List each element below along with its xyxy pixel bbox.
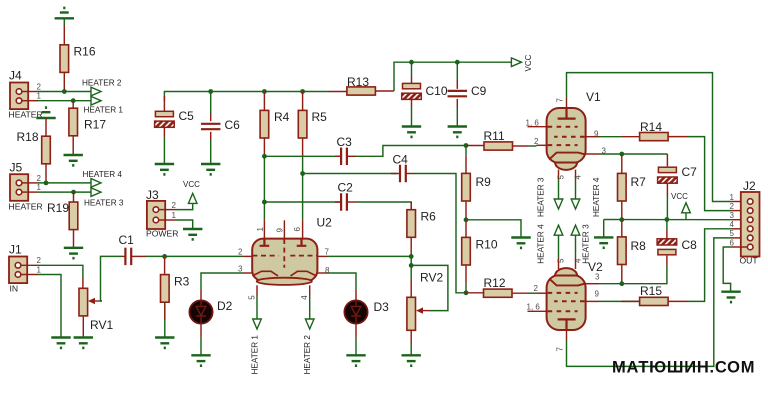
net flag HEATER 2 (U2) [305, 319, 314, 329]
wire R11 node to R9 [465, 146, 467, 156]
pin D2 bottom [200, 324, 202, 337]
svg-text:C4: C4 [393, 153, 409, 167]
pin J5-1 stub [22, 191, 38, 193]
svg-text:2: 2 [37, 174, 42, 183]
tube V2 [547, 268, 586, 330]
resistor R3 [161, 275, 170, 303]
net flag HEATER 1 [91, 96, 101, 105]
resistor R10 [462, 237, 471, 265]
pin RV1 bottom [82, 316, 84, 338]
wire rail to C10 [411, 62, 413, 75]
wire C10 to ground [411, 108, 413, 127]
net flag HEATER 3 (V1) [554, 199, 563, 209]
wire V2-9 to R15 [599, 300, 640, 302]
wire R9 node to ground [466, 220, 521, 238]
svg-text:U2: U2 [317, 216, 333, 230]
ground RV1 [74, 338, 93, 348]
resistor R15 [640, 297, 669, 305]
resistor R8 [618, 237, 627, 265]
capacitor C10 [402, 83, 422, 99]
pin U2-3 stub [243, 272, 253, 274]
resistor R19 [69, 202, 78, 230]
svg-text:C3: C3 [337, 135, 353, 149]
svg-text:2: 2 [730, 202, 735, 211]
pin R7 bottom [621, 201, 623, 220]
svg-text:9: 9 [594, 130, 599, 139]
wiper arrow RV1 [92, 300, 102, 302]
wire D3 to ground [355, 337, 357, 355]
ground above R18 [36, 108, 55, 118]
wire U2-8 to D3 [327, 273, 356, 290]
pin C4 right [406, 173, 414, 175]
pin R16 bottom [63, 72, 65, 91]
pin V2-4 stub [575, 258, 577, 269]
wire rail to C9 [456, 62, 458, 80]
svg-text:C1: C1 [119, 233, 135, 247]
svg-text:C5: C5 [179, 109, 195, 123]
ground C5 [155, 164, 174, 174]
svg-text:5: 5 [247, 295, 256, 300]
wire net HEATER3 [38, 191, 91, 193]
wire to U2 pin1 [263, 202, 265, 220]
pin R7 top [621, 155, 623, 173]
svg-text:1: 1 [37, 265, 42, 274]
pin J2-3 stub [732, 219, 747, 221]
capacitor C4 [400, 165, 406, 183]
wire R4 node down [263, 156, 265, 202]
junction RV2 wiper tap [409, 263, 414, 268]
pin R8 bottom [621, 265, 623, 284]
net flag HEATER 1 (U2) [253, 319, 262, 329]
connector J1 [9, 257, 27, 284]
pin RV2 top [410, 280, 412, 297]
net flag HEATER 3 (V2) [571, 225, 580, 235]
wire J3-2 to VCC [175, 203, 193, 209]
pin R13 left [329, 91, 347, 93]
svg-text:3: 3 [595, 273, 600, 282]
svg-text:C6: C6 [225, 118, 241, 132]
wiper arrow RV2 [420, 310, 429, 312]
svg-text:R19: R19 [47, 201, 69, 215]
wire net HEATER2 [38, 91, 91, 93]
wire R5 to C4 node [302, 156, 304, 173]
net flag HEATER 2 [91, 87, 101, 96]
svg-text:R4: R4 [274, 110, 290, 124]
pin R12 left [466, 292, 484, 294]
svg-text:R11: R11 [484, 129, 505, 143]
ground J3 [183, 229, 202, 239]
pin R9 top [465, 155, 467, 173]
connector J5 [10, 174, 28, 201]
pin RV2 bottom [410, 330, 412, 343]
wire J1-2 to RV1 [38, 265, 83, 277]
wire C5 to ground [163, 137, 165, 164]
pin R14 right [668, 136, 687, 138]
pin R4 bottom [263, 138, 265, 156]
resistor R18 [42, 136, 51, 164]
wire V1-3 to C7 [599, 153, 667, 155]
LED D2 [189, 300, 212, 323]
wire V1-5 heater [558, 180, 560, 199]
pin C10 top [411, 75, 413, 83]
ground D2 [191, 355, 210, 365]
junction C9/VCC rail [455, 60, 460, 65]
ground below R19 [64, 248, 83, 258]
svg-text:2: 2 [238, 248, 243, 257]
pin J2-1 stub [732, 201, 747, 203]
wire C8 to V2-3 net [622, 266, 667, 284]
wire R11 to V1 [529, 145, 537, 147]
pin R8 top [621, 220, 623, 237]
wire U2-7 to R6 node [327, 255, 411, 257]
pin J1-1 stub [21, 274, 38, 276]
wire R14 to J2-2 [687, 137, 732, 211]
svg-text:R12: R12 [484, 276, 506, 290]
ground C6 [201, 164, 220, 174]
junction R18/J5-2 [44, 181, 49, 186]
pin R5 top [302, 92, 304, 111]
capacitor C6 [201, 124, 221, 129]
wire anode supply bus [164, 92, 328, 102]
net flag HEATER 4 (V1) [571, 199, 580, 209]
junction R5/bus [300, 89, 305, 94]
resistor R14 [640, 133, 669, 141]
pin J1-2 stub [21, 264, 38, 266]
svg-text:R7: R7 [631, 175, 647, 189]
junction R19/J5-1 [71, 190, 76, 195]
junction C10/VCC rail [409, 60, 414, 65]
pin R5 bottom [302, 138, 304, 156]
pin J5-2 stub [22, 182, 38, 184]
junction R4/bus [262, 89, 267, 94]
junction C3/R11/R9 [464, 143, 469, 148]
pin V2-9 stub [586, 300, 599, 302]
svg-text:3: 3 [238, 265, 243, 274]
wire bus to C6 [210, 92, 212, 114]
wire V2-7 to J2-5 [567, 238, 733, 367]
pin U2-5 stub [256, 285, 258, 295]
pin C5 top [163, 96, 165, 111]
pin U2-1 stub [263, 220, 265, 238]
wire V1-4 heater [575, 180, 577, 199]
pin R12 right [512, 292, 529, 294]
wire wiper short [101, 300, 103, 302]
pin U2-6 stub [302, 220, 304, 238]
capacitor C8 [657, 239, 677, 255]
resistor R16 [60, 45, 69, 73]
pin U2-4 stub [309, 285, 311, 295]
wire V2-5 heater [558, 235, 560, 258]
tube V2 internals [548, 279, 586, 331]
wire RV2 to ground [410, 343, 412, 355]
pin J2-4 stub [732, 228, 747, 230]
svg-text:IN: IN [10, 284, 19, 294]
svg-text:C8: C8 [682, 238, 698, 252]
pin U2-7 stub [317, 255, 327, 257]
pin R10 top [465, 220, 467, 238]
svg-text:HEATER 1: HEATER 1 [251, 335, 260, 375]
ground C9 [448, 127, 467, 137]
connector J3 [147, 201, 165, 229]
pin V2-1,6 stub [528, 310, 547, 312]
svg-text:R9: R9 [476, 175, 492, 189]
svg-text:RV2: RV2 [420, 271, 443, 285]
wire R15 to J2-4 [687, 229, 732, 302]
pin D3 top [355, 290, 357, 301]
wire RV2 wiper loop [411, 265, 448, 310]
pin V1-7 stub [566, 98, 568, 108]
svg-text:VCC: VCC [524, 54, 533, 71]
svg-text:HEATER 4: HEATER 4 [592, 177, 601, 217]
resistor R17 [69, 108, 78, 136]
svg-text:J2: J2 [743, 179, 756, 193]
svg-text:5: 5 [556, 258, 565, 263]
capacitor C1 [125, 248, 131, 266]
pin R18 top [45, 118, 47, 136]
pin V2-5 stub [558, 258, 560, 269]
wire V1-7 to J2-1 [567, 73, 733, 202]
svg-text:R6: R6 [421, 210, 437, 224]
junction R7/V1-3 [619, 152, 624, 157]
pin R16 top [63, 26, 65, 45]
svg-text:1, 6: 1, 6 [527, 303, 541, 312]
connector J2 [741, 192, 760, 257]
pin R15 left [621, 300, 640, 302]
wire R6 node down [410, 256, 412, 265]
junction C6/bus [208, 89, 213, 94]
pin R6 bottom [410, 237, 412, 256]
junction C7/C8 [665, 217, 670, 222]
svg-text:6: 6 [730, 238, 735, 247]
wire V1-3 node to R7 [621, 154, 623, 155]
svg-text:HEATER 2: HEATER 2 [82, 78, 122, 87]
pin R19 top [73, 192, 75, 202]
ground C10 [402, 127, 421, 137]
pin C3 left [335, 155, 341, 157]
resistor R12 [484, 289, 513, 297]
wire C3 to R11 node [356, 146, 466, 157]
junction C2 tap [262, 200, 267, 205]
pin R11 right [513, 145, 529, 147]
junction R10/R12/C4 [464, 290, 469, 295]
connector J4 [10, 83, 28, 110]
svg-text:2: 2 [534, 137, 539, 146]
net flag VCC (J2) [685, 213, 687, 220]
pin R17 top [72, 101, 74, 109]
svg-text:D3: D3 [374, 300, 390, 314]
svg-text:HEATER 2: HEATER 2 [303, 335, 312, 375]
svg-text:HEATER 3: HEATER 3 [537, 177, 546, 217]
pin C3 right [347, 155, 356, 157]
wire D2 to ground [200, 337, 202, 355]
wire V2-4 heater [575, 235, 577, 258]
svg-text:7: 7 [556, 98, 565, 103]
junction R4/C3 node [262, 154, 267, 159]
ground J2-6 [721, 292, 740, 302]
svg-text:4: 4 [730, 220, 735, 229]
wire C4 to R12 node [414, 174, 466, 293]
svg-text:J4: J4 [9, 69, 22, 83]
pin R11 left [466, 145, 484, 147]
wire C9 to ground [456, 107, 458, 127]
pin C2 left [335, 201, 341, 203]
svg-text:C2: C2 [338, 181, 354, 195]
svg-text:2: 2 [37, 256, 42, 265]
svg-text:J1: J1 [9, 243, 22, 257]
svg-text:2: 2 [534, 284, 539, 293]
capacitor C5 [155, 111, 175, 127]
svg-text:R5: R5 [312, 110, 328, 124]
net flag VCC (J3) [188, 193, 197, 203]
wire net to C8 [666, 220, 668, 231]
wire net HEATER1 [38, 100, 91, 102]
svg-text:R10: R10 [476, 238, 498, 252]
resistor R7 [618, 173, 627, 201]
pin V2-2 stub [537, 292, 547, 294]
pin C9 top [456, 80, 458, 89]
pin J2-2 stub [732, 210, 747, 212]
svg-text:R15: R15 [640, 284, 662, 298]
capacitor C2 [341, 193, 347, 211]
svg-text:3: 3 [730, 211, 735, 220]
pin C8 bottom [666, 256, 668, 266]
pin R17 bottom [72, 136, 74, 155]
pin R10 bottom [465, 265, 467, 283]
svg-text:R14: R14 [640, 120, 662, 134]
wire U2-4 heater [309, 295, 311, 319]
wire RV1 wiper to C1 [101, 256, 123, 301]
svg-text:1: 1 [37, 92, 42, 101]
resistor R13 [347, 87, 376, 95]
ground R7/R8 node [594, 237, 613, 247]
svg-text:VCC: VCC [671, 192, 688, 201]
pin R3 top [164, 256, 166, 274]
net flag VCC arrow (J2) [682, 203, 691, 213]
junction R5/C4/U2-6 [300, 171, 305, 176]
pin U2-9 stub [283, 220, 285, 238]
net flag HEATER 4 (V2) [554, 225, 563, 235]
ground above R16 [55, 8, 74, 18]
svg-text:7: 7 [556, 347, 565, 352]
svg-text:J5: J5 [10, 161, 23, 175]
svg-text:C9: C9 [471, 84, 487, 98]
svg-text:D2: D2 [217, 299, 233, 313]
ground below R17 [64, 155, 83, 165]
wire output bias net [604, 219, 732, 221]
svg-text:HEATER 1: HEATER 1 [84, 106, 124, 115]
pin R15 right [668, 300, 687, 302]
ground J1-1 [51, 338, 70, 348]
wire to RV2 [410, 265, 412, 280]
svg-text:R17: R17 [84, 118, 106, 132]
pin V1-2 stub [537, 144, 547, 146]
wire net to ground [603, 220, 605, 238]
resistor R11 [484, 142, 513, 150]
junction R9/R10 [464, 217, 469, 222]
svg-text:VCC: VCC [183, 180, 200, 189]
potentiometer RV1 [79, 288, 88, 316]
pin C9 bottom [456, 99, 458, 107]
pin C8 top [666, 230, 668, 239]
svg-text:1: 1 [730, 193, 735, 202]
tube V1 [547, 108, 586, 170]
pin D3 bottom [355, 324, 357, 337]
svg-text:RV1: RV1 [90, 318, 113, 332]
wire VCC rail [394, 62, 511, 91]
svg-text:5: 5 [730, 229, 735, 238]
resistor R4 [260, 110, 269, 138]
ground R9/R10 node [511, 238, 530, 248]
svg-text:7: 7 [325, 248, 330, 257]
svg-text:V1: V1 [586, 90, 601, 104]
svg-text:HEATER 3: HEATER 3 [582, 224, 591, 264]
wire U2-3 to D2 [201, 273, 243, 290]
pin V1-9 stub [586, 136, 599, 138]
wire R3 to ground [164, 302, 166, 337]
wire R10 to R12 node [465, 283, 467, 292]
wire J1-1 to ground [38, 275, 61, 338]
svg-text:4: 4 [300, 295, 309, 300]
junction R7/R8 [619, 217, 624, 222]
junction R6/RV2 node [409, 254, 414, 259]
pin J2-5 stub [732, 237, 747, 239]
svg-text:1: 1 [172, 211, 177, 220]
pin C5 bottom [163, 127, 165, 137]
svg-text:OUT: OUT [740, 256, 759, 266]
svg-text:R13: R13 [347, 75, 369, 89]
junction R8/V2-3/C8 [619, 281, 624, 286]
pin C4 left [391, 173, 400, 175]
tube U2 internals [252, 239, 317, 276]
svg-text:POWER: POWER [146, 229, 178, 239]
pin J4-1 stub [22, 100, 38, 102]
wire R4 to C3 [264, 155, 341, 157]
pin C7 top [666, 154, 668, 166]
wire C2 to R6 [356, 202, 411, 210]
pin V2-7 stub [566, 330, 568, 340]
pin V1-4 stub [575, 170, 577, 180]
ground RV2 [402, 355, 421, 365]
wire C1 to U2 pin2 [145, 255, 243, 257]
pin C7 bottom [666, 183, 668, 196]
pin V1-5 stub [558, 170, 560, 180]
resistor R9 [462, 173, 471, 201]
pin RV1 top [82, 277, 84, 288]
svg-text:6: 6 [293, 227, 302, 232]
net flag HEATER 4 [91, 179, 101, 188]
pin R3 bottom [164, 302, 166, 320]
pin R13 right [375, 90, 394, 92]
svg-text:МАТЮШИН.СОМ: МАТЮШИН.СОМ [612, 359, 755, 377]
potentiometer RV2 [407, 297, 416, 330]
pin V1-3 stub [586, 153, 599, 155]
svg-text:HEATER 4: HEATER 4 [83, 170, 123, 179]
net flag VCC (rail) [511, 58, 521, 67]
svg-text:C10: C10 [426, 84, 448, 98]
wire U2-5 heater [256, 295, 258, 319]
wire C2 row [264, 201, 341, 203]
junction R3/C1 [162, 254, 167, 259]
pin R18 bottom [45, 164, 47, 183]
pin C6 top [210, 113, 212, 121]
resistor R5 [298, 110, 307, 138]
pin R6 top [410, 202, 412, 210]
capacitor C3 [341, 148, 347, 166]
pin D2 top [200, 290, 202, 300]
pin R4 top [263, 92, 265, 111]
svg-text:R3: R3 [174, 275, 190, 289]
svg-text:1, 6: 1, 6 [526, 119, 540, 128]
